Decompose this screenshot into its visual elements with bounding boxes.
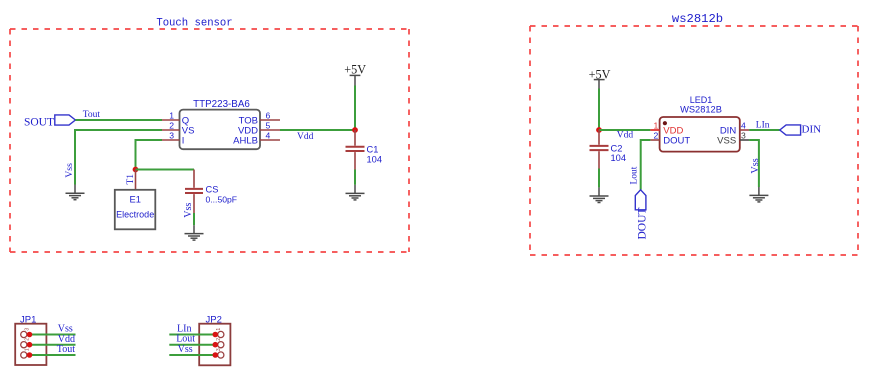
svg-text:SOUT: SOUT (24, 116, 54, 128)
svg-text:Vdd: Vdd (297, 132, 314, 142)
pin 4 DIN (720, 120, 749, 136)
svg-text:2: 2 (654, 130, 659, 140)
pin 3 I (162, 130, 184, 146)
JP1 pin 1 row (21, 348, 76, 358)
svg-text:3: 3 (741, 130, 746, 140)
pin 3 VSS (717, 130, 749, 146)
pin 5 VDD (238, 120, 280, 136)
wire +5V to junction right (598, 89, 600, 131)
ground CS (185, 225, 204, 240)
wire junction to pin1 (599, 129, 650, 131)
wire C2 to ground (598, 169, 600, 188)
junction node Vdd right (596, 127, 602, 133)
svg-text:TTP223-BA6: TTP223-BA6 (193, 99, 250, 110)
svg-text:6: 6 (266, 110, 271, 120)
svg-text:0...50pF: 0...50pF (206, 195, 238, 205)
svg-text:Touch sensor: Touch sensor (156, 18, 232, 30)
JP1 pin 3 row (21, 328, 76, 338)
wire pin3 to junction (136, 140, 163, 170)
ground C1 (346, 185, 365, 200)
svg-text:104: 104 (367, 154, 383, 164)
svg-text:Vss: Vss (183, 203, 194, 218)
ground VSS right (749, 187, 768, 202)
svg-text:DIN: DIN (802, 123, 822, 135)
wire pin2 to Vss (75, 130, 162, 185)
svg-text:Tout: Tout (57, 344, 75, 355)
svg-text:1: 1 (654, 120, 659, 130)
svg-text:2: 2 (216, 338, 222, 341)
power +5V right (589, 67, 611, 88)
svg-text:2: 2 (169, 120, 174, 130)
svg-text:Tout: Tout (83, 110, 101, 120)
capacitor C2 (590, 130, 627, 169)
svg-text:3: 3 (25, 328, 31, 331)
svg-text:4: 4 (266, 130, 271, 140)
svg-text:Vss: Vss (750, 158, 761, 173)
IC LED1 WS2812B (660, 95, 740, 151)
ground Vss left (66, 185, 85, 200)
JP2 pin 3 row (169, 348, 224, 358)
svg-text:4: 4 (741, 120, 746, 130)
svg-text:Lout: Lout (630, 166, 640, 184)
wire C1 to ground (354, 170, 356, 185)
junction node T1 (133, 167, 139, 173)
svg-text:104: 104 (611, 153, 627, 163)
wire +5V to junction (354, 86, 356, 131)
svg-text:ws2812b: ws2812b (672, 12, 723, 26)
svg-text:1: 1 (216, 328, 222, 331)
svg-text:Vss: Vss (58, 323, 73, 334)
pin 2 VS (162, 120, 194, 136)
svg-text:+5V: +5V (344, 63, 366, 77)
svg-text:2: 2 (25, 338, 31, 341)
sheet box ws2812b (530, 12, 858, 255)
svg-text:1: 1 (25, 348, 31, 351)
svg-text:C2: C2 (611, 144, 623, 154)
wire pin4 to DIN (749, 129, 780, 131)
wire CS to ground (193, 213, 195, 225)
power +5V left (344, 63, 366, 86)
pin 2 DOUT (650, 130, 690, 146)
pin 6 TOB (239, 110, 280, 126)
pin 1 VDD (650, 120, 683, 136)
svg-text:LIn: LIn (177, 323, 191, 334)
connector JP2 (199, 314, 230, 365)
svg-text:DOUT: DOUT (663, 135, 690, 146)
svg-text:LIn: LIn (756, 120, 770, 130)
svg-text:Electrode: Electrode (116, 210, 154, 220)
wire SOUT to pin1 (75, 119, 162, 121)
svg-text:C1: C1 (367, 144, 379, 154)
ground C2 (590, 187, 609, 202)
wire junction to CS (136, 169, 195, 171)
E1 pin lead (135, 170, 137, 190)
svg-text:Vdd: Vdd (617, 131, 634, 141)
svg-text:5: 5 (266, 120, 271, 130)
capacitor CS (185, 170, 237, 214)
svg-text:WS2812B: WS2812B (680, 105, 722, 115)
svg-text:I: I (182, 136, 185, 147)
pin 4 AHLB (233, 130, 280, 146)
capacitor C1 (346, 130, 383, 170)
svg-text:Vss: Vss (178, 344, 193, 355)
pin 1 Q (162, 110, 189, 126)
connector JP1 (15, 314, 46, 365)
svg-text:VSS: VSS (717, 135, 736, 146)
svg-text:Vss: Vss (64, 163, 75, 178)
IC U1 TTP223-BA6 (180, 99, 261, 149)
global label DOUT (up-pointing) (635, 190, 648, 240)
junction node Vdd (352, 127, 358, 133)
svg-text:3: 3 (216, 348, 222, 351)
wire pin2 to DOUT label (641, 140, 651, 190)
wire pin5 VDD to +5V node (280, 129, 355, 131)
svg-text:1: 1 (169, 110, 174, 120)
sheet box Touch sensor (10, 18, 409, 253)
svg-text:CS: CS (206, 185, 219, 195)
svg-text:DOUT: DOUT (637, 208, 649, 240)
svg-text:3: 3 (169, 130, 174, 140)
JP2 pin 1 row (169, 328, 224, 338)
svg-text:E1: E1 (130, 195, 141, 205)
JP1 pin 2 row (21, 338, 76, 348)
global label DIN (left-pointing) (780, 123, 821, 135)
JP2 pin 2 row (169, 338, 224, 348)
wire pin3 to ground (749, 140, 759, 187)
global label SOUT (24, 115, 75, 128)
electrode E1 (115, 190, 156, 230)
svg-text:AHLB: AHLB (233, 136, 258, 147)
